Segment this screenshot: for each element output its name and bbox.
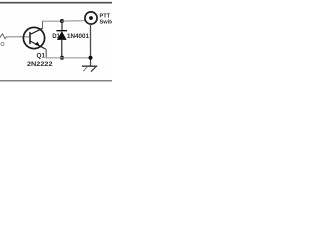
wire bottom rail <box>0 80 112 82</box>
transistor Q1 <box>23 27 45 49</box>
svg-text:Q1: Q1 <box>37 53 46 60</box>
connector PTT jack <box>85 12 97 24</box>
ground <box>83 66 97 71</box>
wire node to PTT jack <box>62 20 85 22</box>
wire collector <box>42 21 44 28</box>
svg-text:1N4001: 1N4001 <box>67 34 90 40</box>
wire base <box>7 36 30 38</box>
diode D1 <box>57 31 67 40</box>
wire diode anode <box>61 40 63 58</box>
wire emitter <box>45 49 48 58</box>
scan artifact near left edge <box>1 42 4 45</box>
svg-text:2N2222: 2N2222 <box>27 61 53 68</box>
svg-text:D1: D1 <box>52 34 60 40</box>
wire emitter rail <box>46 57 90 59</box>
wire diode cathode <box>61 21 63 31</box>
node rail/ground junction <box>89 56 93 60</box>
resistor (partial, clipped at left edge) <box>0 34 7 39</box>
node collector/diode/PTT junction <box>60 19 64 23</box>
node diode/rail junction <box>60 56 64 60</box>
wire PTT jack to ground <box>90 24 92 66</box>
wire top rail <box>0 2 112 4</box>
svg-text:Switch: Switch <box>100 20 113 26</box>
